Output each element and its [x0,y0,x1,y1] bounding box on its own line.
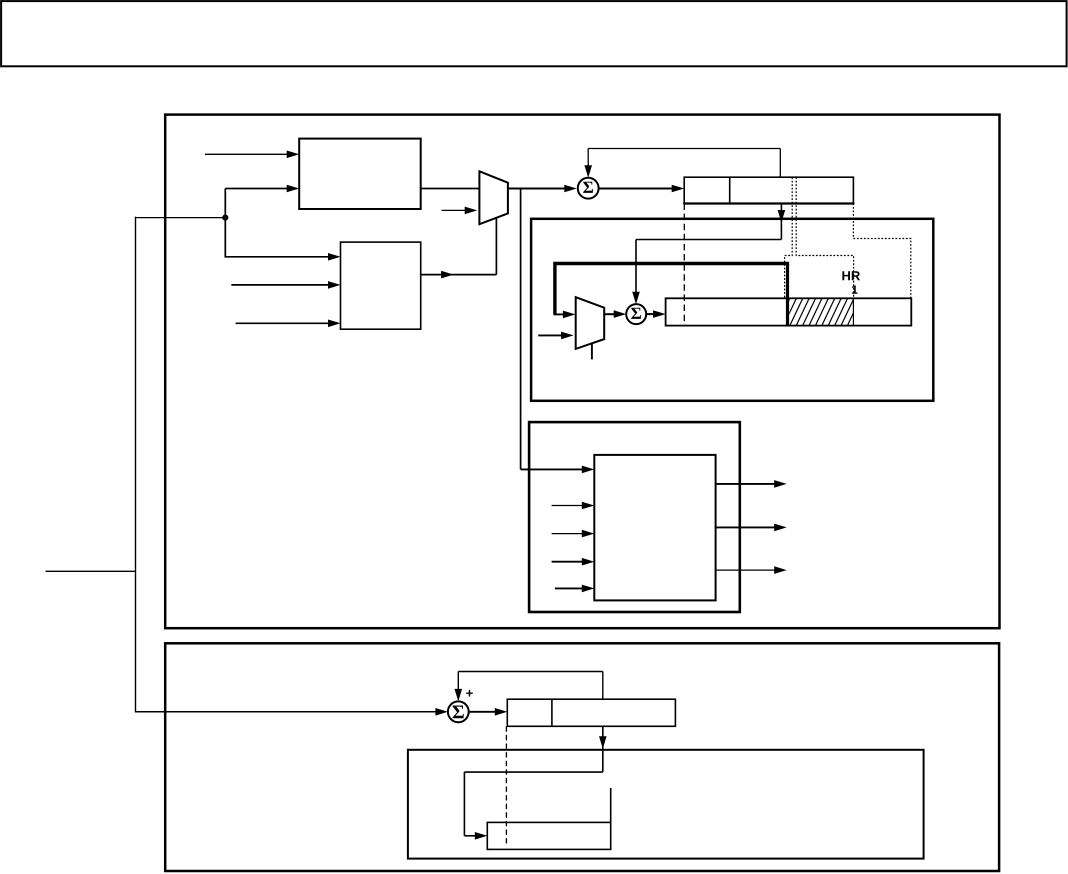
R4 right edge extension [610,788,612,822]
wire from left vertical bus to junction [136,217,226,219]
S1 feedback loop wire [587,149,589,168]
node junction dot [222,215,228,221]
mux M1 trapezoid [479,171,508,224]
arrow input 2 into block B [231,284,329,286]
arrow decode output 2 [716,526,775,528]
S3 feedback loop wire [457,672,459,691]
arrow decode input 2 [552,505,583,507]
wire block B output up to mux M1 [421,274,497,276]
decode block rectangle [594,455,715,601]
arrow decode input 3 [552,533,583,535]
M2 bottom tail [591,343,593,359]
thick highlight wire [555,264,789,315]
arrow register R3 down into lower inner box [602,726,604,772]
arrow decode output 1 [716,483,775,485]
wire bottom bus into summer S3 [136,711,437,713]
inner box position loop [531,219,933,401]
decode inner box [529,422,740,612]
arrow decode input 5 [555,587,583,589]
title banner box [1,1,1067,66]
register R4 small [487,822,610,849]
block A (upper-left rectangle) [299,139,421,209]
summer S2 circle [626,304,646,324]
wire branch down to decode block [520,189,522,470]
arrow input 2 into block A [225,188,288,190]
wire junction vertical branch [225,189,328,257]
wire block A output to mux M1 [421,188,480,190]
arrow input 1 into block A [205,153,288,155]
register R2 wide [666,298,912,325]
outer box upper section [165,115,999,629]
arrow M2 to summer S2 [604,313,615,315]
R2 hatched cell [777,298,867,325]
arrow decode output 3 [716,569,775,571]
wire vertical left bus [135,217,137,713]
wire stub at left [46,570,136,572]
arrow S3 to register R3 [469,711,497,713]
label HR 1 [842,271,860,280]
arrow register R1 down into inner box [780,204,782,240]
register R3 [507,699,675,726]
lower inner box [408,750,924,859]
arrow S2 to register R2 [646,313,654,315]
summer S1 circle [578,178,599,199]
summer S3 circle [448,701,469,722]
wire mux M1 output to summer S1 [508,188,566,190]
dashed alignment line R3-R4 [505,726,507,846]
arrow S1 to register R1 [599,188,673,190]
label plus sign [466,690,473,697]
outer box lower section [165,643,999,871]
arrow thick wire into mux M2 [554,313,565,315]
dotted field mapping lines [785,177,793,298]
register R1 [684,177,853,203]
arrow M1 select input [442,209,466,211]
arrow M2 select input [538,334,562,336]
arrow decode input 4 [552,561,583,563]
R2 cell boundary right [852,298,854,325]
thick cell divider [786,264,789,326]
mux M2 trapezoid [576,297,605,349]
dashed alignment line R1-R2 left [683,204,685,326]
arrow input 3 into block B [236,322,329,324]
block B (lower-left rectangle) [341,242,421,329]
